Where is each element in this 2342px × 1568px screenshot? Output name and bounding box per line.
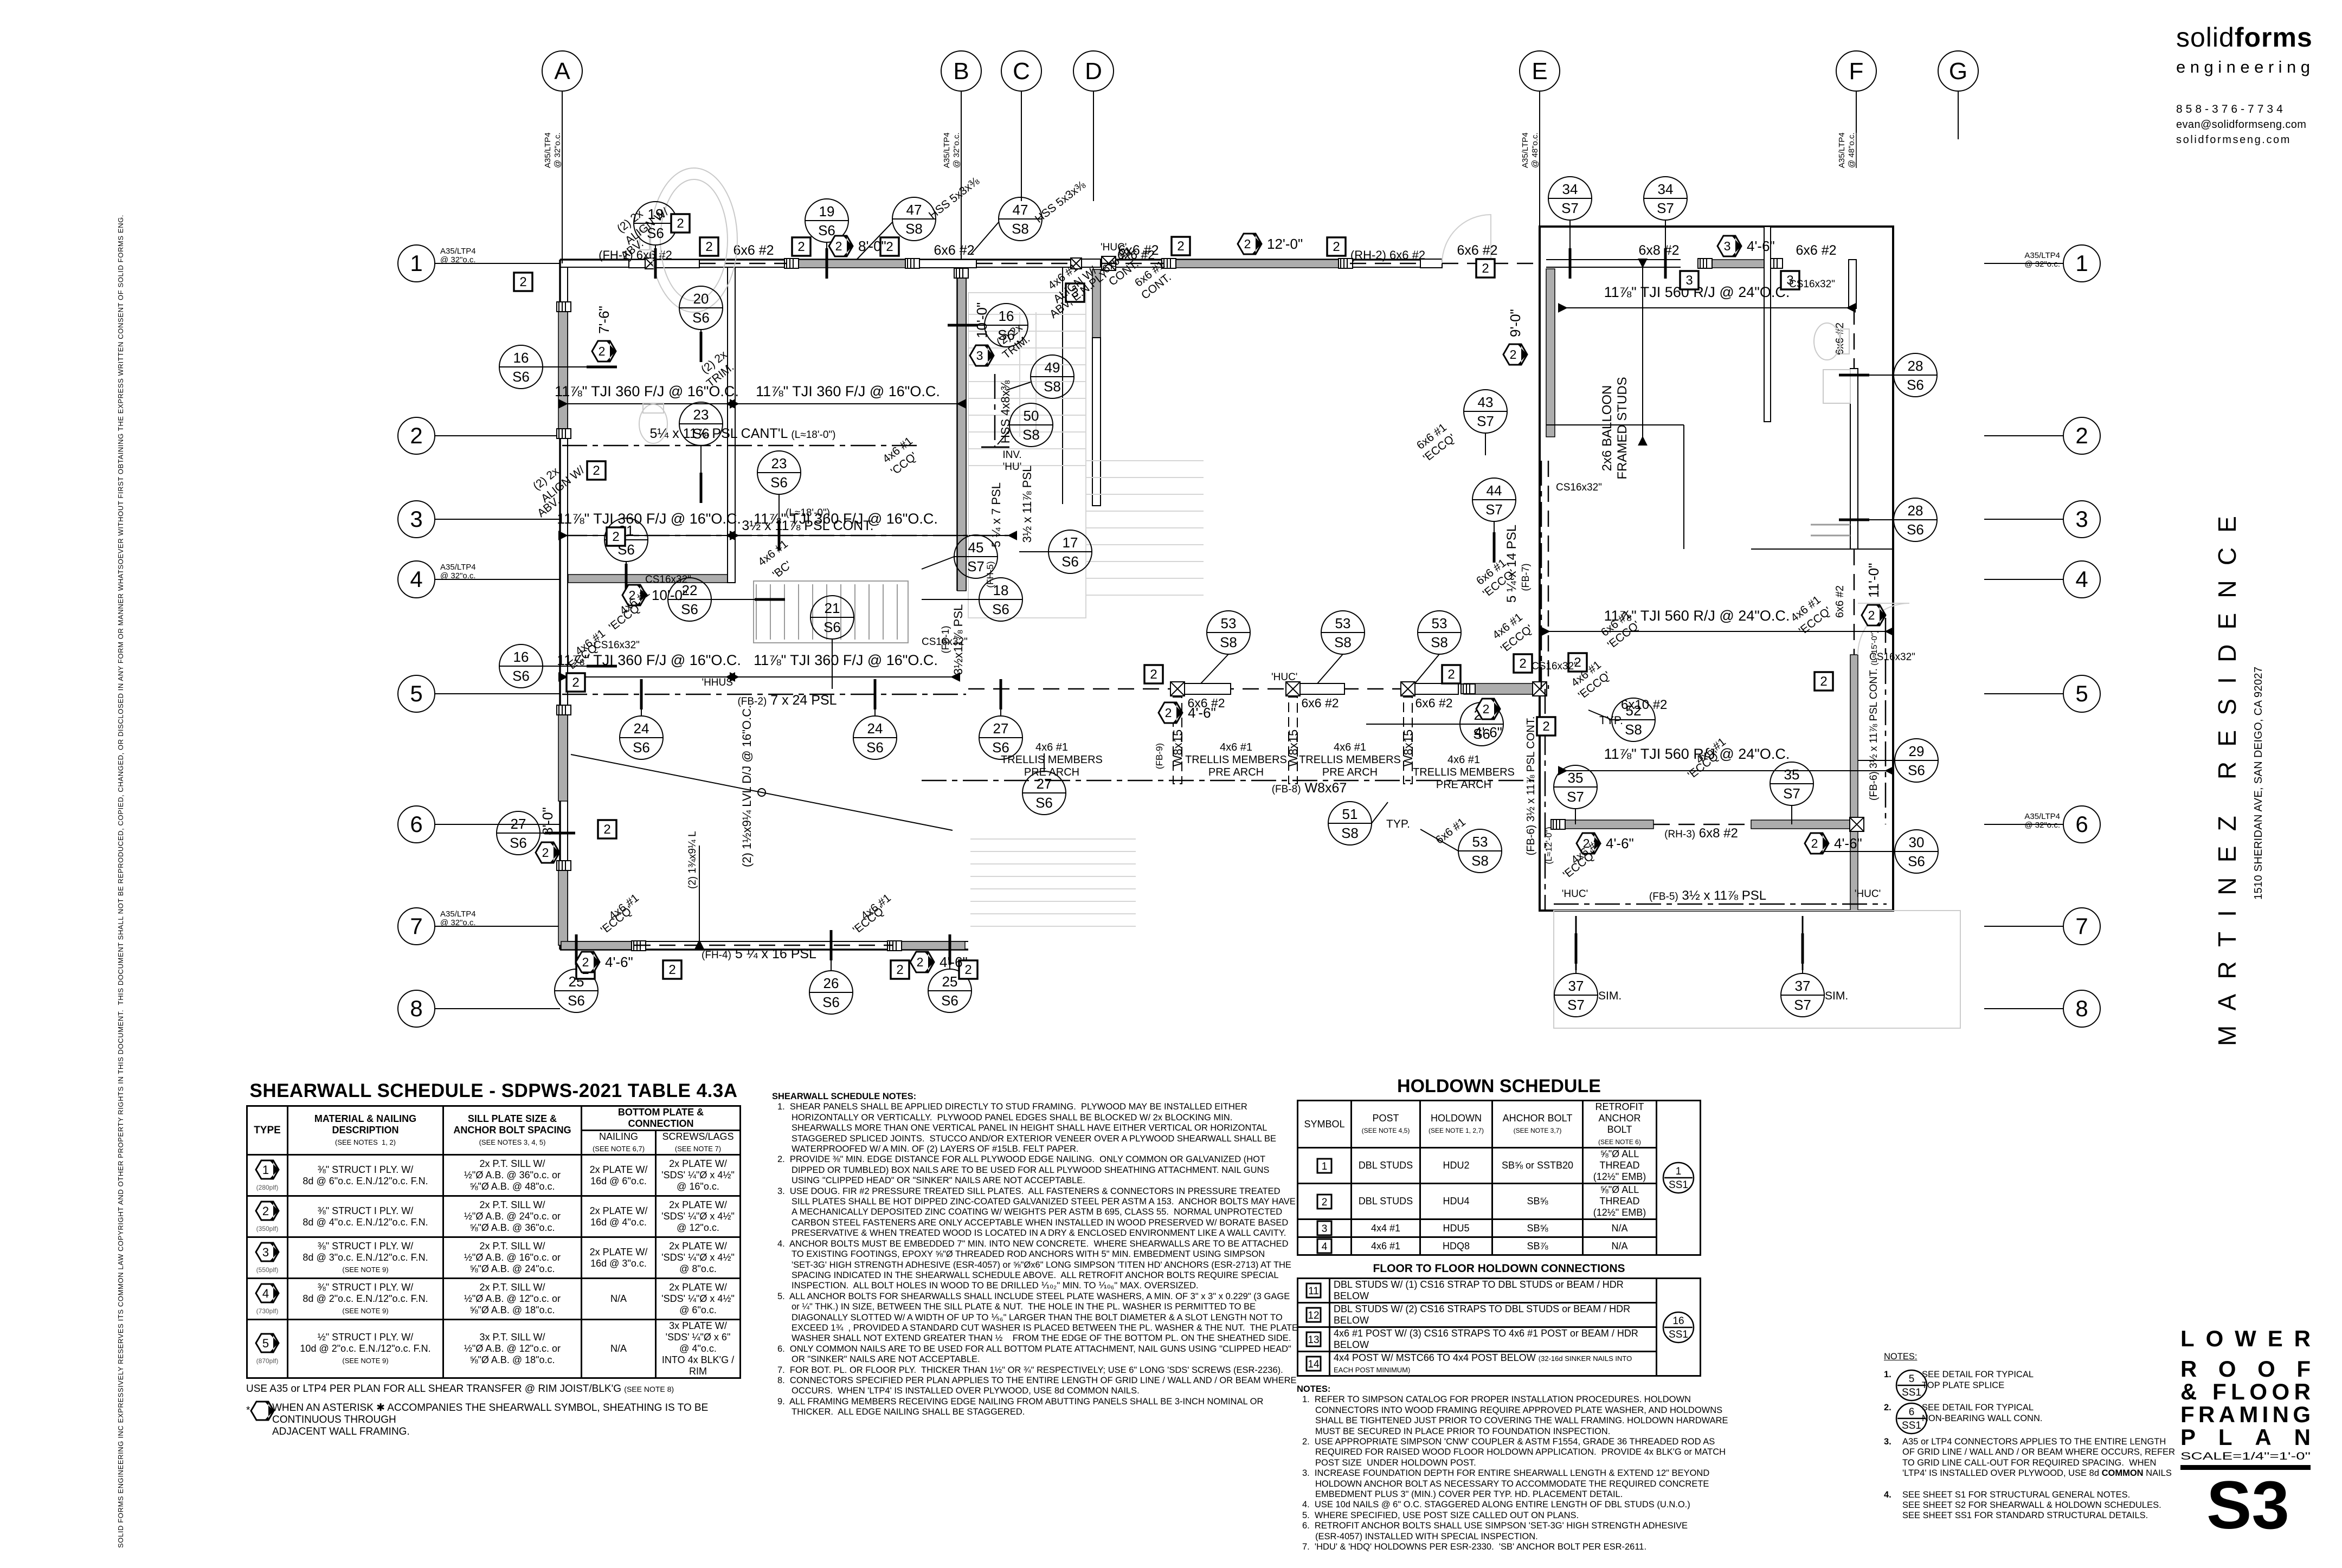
svg-text:6x6 #2: 6x6 #2 <box>1834 585 1846 618</box>
svg-text:S6: S6 <box>692 425 710 442</box>
svg-text:53: 53 <box>1335 615 1351 631</box>
svg-text:27: 27 <box>993 720 1009 737</box>
sheet title bottom right <box>2179 1327 2312 1568</box>
svg-text:SS1: SS1 <box>1902 1387 1921 1398</box>
svg-text:19: 19 <box>819 203 835 220</box>
svg-text:8: 8 <box>2075 996 2088 1021</box>
svg-text:16: 16 <box>513 649 529 665</box>
svg-text:2: 2 <box>917 955 924 969</box>
svg-text:12: 12 <box>1308 1310 1319 1321</box>
svg-text:B: B <box>953 58 969 85</box>
svg-text:(2) 1½x9¼ LVL D/J @ 16"O.C.: (2) 1½x9¼ LVL D/J @ 16"O.C. <box>740 705 754 867</box>
svg-text:2: 2 <box>1483 702 1490 716</box>
svg-text:S6: S6 <box>1907 521 1924 538</box>
svg-text:25: 25 <box>942 973 958 990</box>
svg-text:ROOF: ROOF <box>2180 1356 2311 1382</box>
svg-text:14: 14 <box>1308 1359 1320 1370</box>
svg-text:11⅞" TJI 360 F/J @ 16"O.C.: 11⅞" TJI 360 F/J @ 16"O.C. <box>754 511 938 527</box>
svg-text:C: C <box>1013 58 1030 85</box>
svg-text:6x10 #2: 6x10 #2 <box>1621 698 1667 712</box>
svg-text:5: 5 <box>2075 681 2088 706</box>
svg-text:2: 2 <box>677 216 684 231</box>
svg-text:1: 1 <box>1676 1166 1682 1177</box>
svg-text:4'-6": 4'-6" <box>1606 835 1634 851</box>
svg-text:50: 50 <box>1024 408 1039 424</box>
svg-text:37: 37 <box>1795 978 1811 994</box>
svg-text:53: 53 <box>1432 615 1447 631</box>
svg-text:@ 32"o.c.: @ 32"o.c. <box>2024 260 2060 269</box>
svg-text:44: 44 <box>1487 482 1502 499</box>
svg-text:S7: S7 <box>1567 997 1585 1013</box>
svg-text:SCALE=1/4"=1'-0": SCALE=1/4"=1'-0" <box>2180 1451 2311 1462</box>
svg-text:4: 4 <box>1322 1241 1328 1253</box>
svg-text:6x6 #1: 6x6 #1 <box>1433 816 1468 847</box>
svg-text:1: 1 <box>1322 1161 1328 1172</box>
svg-text:'HUC': 'HUC' <box>1562 888 1588 900</box>
svg-text:4'-6": 4'-6" <box>1188 705 1216 721</box>
svg-text:5: 5 <box>410 681 422 706</box>
svg-text:PRE ARCH: PRE ARCH <box>1208 766 1264 778</box>
svg-text:2: 2 <box>1177 239 1184 254</box>
svg-text:43: 43 <box>1478 394 1494 410</box>
svg-text:2: 2 <box>599 344 606 358</box>
svg-text:LOWER: LOWER <box>2180 1327 2311 1351</box>
svg-text:S3: S3 <box>2206 1468 2289 1543</box>
svg-text:S8: S8 <box>1022 427 1040 443</box>
svg-text:(FB-5) 3½ x 11⅞ PSL: (FB-5) 3½ x 11⅞ PSL <box>1649 888 1766 903</box>
svg-text:2: 2 <box>1510 347 1517 362</box>
FB-6 vertical beams <box>1545 689 1546 911</box>
svg-text:S6: S6 <box>1908 762 1925 778</box>
grid bubbles right 1-8 <box>1984 245 2100 282</box>
svg-text:(2) 1¾x9¼ L: (2) 1¾x9¼ L <box>687 831 698 889</box>
svg-text:HSS 5x3x⅜: HSS 5x3x⅜ <box>1033 178 1088 225</box>
callout circles <box>634 202 677 245</box>
svg-text:4x6 #1: 4x6 #1 <box>1447 754 1480 766</box>
svg-text:6x6 #2: 6x6 #2 <box>934 243 974 258</box>
svg-text:17: 17 <box>1063 534 1078 551</box>
svg-text:'HUC': 'HUC' <box>1855 888 1881 900</box>
svg-text:TRELLIS MEMBERS: TRELLIS MEMBERS <box>1001 754 1103 766</box>
title block right <box>2176 22 2317 146</box>
svg-text:5 ¼ x 7 PSL: 5 ¼ x 7 PSL <box>989 482 1003 547</box>
stairs upper run light <box>968 293 1086 618</box>
svg-text:8: 8 <box>410 996 422 1021</box>
svg-text:11⅞" TJI 360 F/J @ 16"O.C.: 11⅞" TJI 360 F/J @ 16"O.C. <box>754 652 938 668</box>
svg-text:MARTINEZ RESIDENCE: MARTINEZ RESIDENCE <box>2213 509 2241 1046</box>
svg-text:SS1: SS1 <box>1902 1420 1921 1431</box>
svg-text:3: 3 <box>410 506 422 532</box>
svg-text:S6: S6 <box>992 601 1009 617</box>
svg-text:S8: S8 <box>1012 221 1029 237</box>
svg-text:27: 27 <box>511 816 526 832</box>
svg-text:2x6 BALLOON: 2x6 BALLOON <box>1600 385 1614 472</box>
vertical project name <box>2212 488 2282 1084</box>
svg-text:'HU': 'HU' <box>1003 461 1022 473</box>
svg-text:S6: S6 <box>992 739 1009 756</box>
svg-text:CS16x32": CS16x32" <box>922 636 968 648</box>
svg-text:S6: S6 <box>823 619 841 635</box>
svg-text:34: 34 <box>1658 181 1674 197</box>
svg-text:2: 2 <box>896 963 903 977</box>
door arc right bldg east <box>1858 603 1909 655</box>
svg-text:4'-6": 4'-6" <box>1834 835 1862 851</box>
FB-7 vertical beam <box>1541 461 1542 689</box>
right bldg interior walls <box>1849 260 1856 308</box>
svg-text:2: 2 <box>1542 719 1549 734</box>
patio below right bldg <box>1554 911 1960 1028</box>
svg-text:6x8 #2: 6x8 #2 <box>1638 243 1679 258</box>
svg-text:S6: S6 <box>1908 853 1925 869</box>
svg-text:D: D <box>1085 58 1102 85</box>
svg-text:2: 2 <box>1447 667 1455 682</box>
svg-text:HSS 5x3x⅜: HSS 5x3x⅜ <box>926 175 982 222</box>
header beams top wall <box>629 260 699 268</box>
svg-text:(FB-6) 3½ x 11⅞ PSL CONT.: (FB-6) 3½ x 11⅞ PSL CONT. <box>1525 717 1537 856</box>
svg-text:3: 3 <box>1685 273 1693 288</box>
svg-text:5: 5 <box>1909 1373 1915 1385</box>
svg-text:S6: S6 <box>818 222 835 238</box>
svg-text:S8: S8 <box>1431 634 1448 650</box>
svg-text:S6: S6 <box>1061 553 1079 570</box>
svg-text:W8x15: W8x15 <box>1171 730 1185 766</box>
svg-text:INV.: INV. <box>1002 449 1021 461</box>
TJI 560 right bldg <box>1567 284 1847 308</box>
svg-text:W8x15: W8x15 <box>1286 730 1300 766</box>
svg-text:@ 32"o.c.: @ 32"o.c. <box>952 132 961 168</box>
svg-text:TRELLIS MEMBERS: TRELLIS MEMBERS <box>1299 754 1401 766</box>
svg-text:6: 6 <box>410 811 422 837</box>
svg-text:2: 2 <box>603 822 610 837</box>
svg-text:2: 2 <box>1165 706 1172 720</box>
svg-text:23: 23 <box>771 455 787 472</box>
RH-3 row <box>1554 820 1653 829</box>
svg-text:S7: S7 <box>1567 789 1584 805</box>
svg-text:S8: S8 <box>905 221 923 237</box>
HOLDOWN SCHEDULE <box>1297 1076 1701 1553</box>
svg-text:S8: S8 <box>1471 853 1489 869</box>
svg-text:4x6 #1: 4x6 #1 <box>1220 741 1252 753</box>
svg-text:28: 28 <box>1908 358 1923 374</box>
svg-text:6x6 #2: 6x6 #2 <box>1301 696 1339 710</box>
toilet right bldg <box>1814 323 1849 360</box>
svg-text:2: 2 <box>410 423 422 448</box>
svg-text:S7: S7 <box>1561 200 1579 216</box>
svg-text:4'-6": 4'-6" <box>1474 724 1502 740</box>
svg-text:47: 47 <box>1013 202 1028 218</box>
svg-text:S7: S7 <box>967 558 985 575</box>
svg-text:2: 2 <box>1333 240 1340 254</box>
svg-text:51: 51 <box>1342 806 1358 822</box>
svg-text:10'-0": 10'-0" <box>652 587 687 603</box>
svg-text:@ 32"o.c.: @ 32"o.c. <box>2024 821 2060 830</box>
trellis member labels <box>1185 741 1287 778</box>
svg-text:(RH-2) 6x6 #2: (RH-2) 6x6 #2 <box>1350 248 1425 262</box>
svg-text:12'-0": 12'-0" <box>1267 236 1303 252</box>
svg-text:11'-0": 11'-0" <box>1865 563 1882 598</box>
svg-text:@ 48"o.c.: @ 48"o.c. <box>1847 132 1856 168</box>
deck joists between buildings <box>970 839 1136 926</box>
trellis row beams <box>968 688 1540 690</box>
svg-text:27: 27 <box>1037 776 1052 792</box>
TJI span dimensions left bldg <box>555 383 739 404</box>
svg-text:S8: S8 <box>1625 721 1642 738</box>
svg-text:3: 3 <box>1322 1223 1328 1235</box>
svg-text:S7: S7 <box>1485 501 1503 518</box>
svg-text:@ 48"o.c.: @ 48"o.c. <box>1530 132 1540 168</box>
svg-text:SIM.: SIM. <box>1825 990 1848 1002</box>
svg-text:FRAMED STUDS: FRAMED STUDS <box>1615 377 1630 479</box>
svg-text:S6: S6 <box>681 601 698 617</box>
svg-text:S6: S6 <box>1907 377 1924 393</box>
door arc top wall <box>1442 215 1491 263</box>
svg-text:7: 7 <box>410 913 422 939</box>
svg-text:PRE ARCH: PRE ARCH <box>1322 766 1378 778</box>
stairs main run <box>756 584 897 640</box>
svg-text:4: 4 <box>410 566 422 592</box>
svg-text:1: 1 <box>2075 250 2088 276</box>
svg-text:S8: S8 <box>1334 634 1352 650</box>
svg-text:1510 SHERIDAN AVE, SAN DEIGO,: 1510 SHERIDAN AVE, SAN DEIGO, CA 92027 <box>2253 667 2264 900</box>
svg-text:S7: S7 <box>1794 997 1811 1013</box>
svg-text:5: 5 <box>262 1337 269 1350</box>
svg-text:35: 35 <box>1784 766 1800 783</box>
stair enclosure walls <box>1092 338 1101 506</box>
svg-text:3: 3 <box>262 1246 269 1259</box>
svg-text:TRELLIS MEMBERS: TRELLIS MEMBERS <box>1185 754 1287 766</box>
svg-text:S6: S6 <box>1035 795 1053 811</box>
left building outline walls <box>560 259 1420 261</box>
svg-text:A35/LTP4: A35/LTP4 <box>440 247 476 256</box>
svg-text:2: 2 <box>582 955 589 969</box>
svg-text:30: 30 <box>1909 834 1925 850</box>
svg-text:A35/LTP4: A35/LTP4 <box>1837 132 1846 168</box>
svg-text:24: 24 <box>867 720 883 737</box>
svg-text:A35/LTP4: A35/LTP4 <box>440 563 476 572</box>
svg-text:G: G <box>1949 58 1967 85</box>
svg-text:CS16x32": CS16x32" <box>1556 482 1602 493</box>
svg-text:6x6 #2: 6x6 #2 <box>1415 696 1452 710</box>
grid bubbles left 1-8 <box>398 245 560 282</box>
svg-text:2: 2 <box>1811 836 1818 850</box>
svg-text:13: 13 <box>1308 1334 1319 1346</box>
svg-text:S6: S6 <box>770 474 788 491</box>
svg-text:4: 4 <box>2075 566 2088 592</box>
HSS 4x8 column line <box>994 374 996 447</box>
svg-text:2: 2 <box>668 963 675 977</box>
svg-text:4'-6": 4'-6" <box>940 954 968 970</box>
svg-text:(FB-7): (FB-7) <box>1520 564 1531 591</box>
svg-text:8'-0": 8'-0" <box>539 807 556 835</box>
svg-text:@ 32"o.c.: @ 32"o.c. <box>440 918 476 927</box>
right bldg grid1 wall row <box>1546 259 1681 260</box>
svg-text:A: A <box>554 58 570 85</box>
svg-text:SIM.: SIM. <box>1598 990 1622 1002</box>
svg-text:2: 2 <box>1868 608 1875 622</box>
CANT beam dash-dot <box>562 445 922 447</box>
svg-text:4'-6": 4'-6" <box>605 954 633 970</box>
interior wall mid vertical <box>728 267 735 583</box>
svg-text:6: 6 <box>1909 1406 1915 1418</box>
svg-text:1: 1 <box>410 250 422 276</box>
svg-text:S8: S8 <box>1044 378 1061 395</box>
svg-text:A35/LTP4: A35/LTP4 <box>942 132 951 168</box>
svg-text:SS1: SS1 <box>1669 1329 1688 1340</box>
svg-text:3½ x 11⅞ PSL: 3½ x 11⅞ PSL <box>1020 466 1034 543</box>
svg-text:3: 3 <box>976 349 983 363</box>
svg-text:3: 3 <box>2075 506 2088 532</box>
svg-text:18: 18 <box>993 582 1009 598</box>
shearwall hexagons with dims <box>829 236 853 256</box>
svg-text:4x6 #1: 4x6 #1 <box>1334 741 1366 753</box>
svg-text:4x6 #1: 4x6 #1 <box>1035 741 1068 753</box>
svg-text:(FH-4) 5 ¼ x 16 PSL: (FH-4) 5 ¼ x 16 PSL <box>702 946 816 962</box>
svg-text:11⅞" TJI 360 F/J @ 16"O.C.: 11⅞" TJI 360 F/J @ 16"O.C. <box>756 383 940 399</box>
svg-text:S6: S6 <box>822 994 840 1010</box>
svg-text:F: F <box>1849 58 1864 85</box>
svg-text:10'-0": 10'-0" <box>974 302 990 338</box>
svg-text:28: 28 <box>1908 502 1923 519</box>
LVL D/J diagonal extent <box>571 754 953 830</box>
NOTES right bottom <box>1884 1352 2112 1521</box>
svg-text:7'-6": 7'-6" <box>596 306 612 334</box>
svg-text:FRAMING: FRAMING <box>2180 1402 2311 1427</box>
svg-text:2: 2 <box>2075 423 2088 448</box>
svg-text:CS16x32": CS16x32" <box>1532 661 1578 672</box>
svg-text:CS16x32": CS16x32" <box>1869 651 1915 663</box>
svg-text:1: 1 <box>262 1163 269 1177</box>
INV HU <box>1002 449 1021 473</box>
svg-text:6x6 #2: 6x6 #2 <box>1117 248 1155 262</box>
svg-text:16: 16 <box>1672 1315 1684 1327</box>
leader wall ticks <box>654 248 657 279</box>
svg-text:5¼ x 11⅞ PSL CANT'L (L≈18'-0"): 5¼ x 11⅞ PSL CANT'L (L≈18'-0") <box>650 426 836 441</box>
svg-text:49: 49 <box>1045 359 1060 376</box>
svg-text:(L≈12'-0"): (L≈12'-0") <box>1545 827 1554 864</box>
svg-text:6x6 #2: 6x6 #2 <box>1457 243 1497 258</box>
gray shearwall segments <box>558 302 568 435</box>
svg-text:8'-0": 8'-0" <box>858 238 886 254</box>
vertical dim arrow bottom <box>699 846 700 940</box>
svg-text:47: 47 <box>906 202 922 218</box>
svg-text:2: 2 <box>1820 674 1827 689</box>
svg-text:2: 2 <box>519 275 526 289</box>
svg-text:4'-6": 4'-6" <box>1747 238 1775 254</box>
svg-text:2: 2 <box>612 530 619 544</box>
svg-text:SOLID FORMS ENGINEERING INC EX: SOLID FORMS ENGINEERING INC EXPRESSIVELY… <box>117 215 125 1548</box>
svg-text:(RH-3) 6x8 #2: (RH-3) 6x8 #2 <box>1664 826 1738 841</box>
upper stair second flight light <box>1086 461 1204 595</box>
svg-text:2: 2 <box>1150 667 1157 682</box>
svg-text:6x6 #2: 6x6 #2 <box>1796 243 1836 258</box>
right building outline <box>1540 227 1893 911</box>
svg-text:45: 45 <box>968 539 984 556</box>
svg-text:S6: S6 <box>866 739 884 756</box>
svg-text:CS16x32": CS16x32" <box>594 640 640 651</box>
svg-text:2: 2 <box>593 463 600 478</box>
svg-text:2: 2 <box>262 1204 269 1218</box>
svg-text:21: 21 <box>825 600 840 616</box>
svg-text:SS1: SS1 <box>1669 1179 1688 1191</box>
svg-text:A35/LTP4: A35/LTP4 <box>1521 132 1530 168</box>
svg-text:S7: S7 <box>1783 785 1800 802</box>
svg-text:S6: S6 <box>568 992 585 1009</box>
svg-text:A35/LTP4: A35/LTP4 <box>2024 251 2060 260</box>
svg-text:16: 16 <box>999 308 1014 324</box>
toilet left <box>639 403 667 443</box>
FH-4 bottom beam <box>634 945 893 946</box>
FB-2 7x24 PSL <box>562 694 966 695</box>
svg-text:23: 23 <box>693 406 709 423</box>
svg-text:(FB-9): (FB-9) <box>1154 743 1164 769</box>
svg-text:S6: S6 <box>512 369 530 385</box>
svg-text:@ 32"o.c.: @ 32"o.c. <box>440 571 476 580</box>
shearwall type squares <box>514 273 532 291</box>
svg-text:S7: S7 <box>1477 413 1494 429</box>
svg-text:2: 2 <box>797 240 805 254</box>
svg-text:CS16x32": CS16x32" <box>645 574 691 585</box>
svg-text:S8: S8 <box>1341 825 1359 841</box>
left margin copyright <box>111 0 127 1561</box>
svg-text:S6: S6 <box>512 668 530 684</box>
svg-text:@ 32"o.c.: @ 32"o.c. <box>553 132 562 168</box>
svg-text:3: 3 <box>1724 239 1731 253</box>
svg-text:'HHUS': 'HHUS' <box>702 677 735 688</box>
sink right bldg <box>1823 370 1850 403</box>
svg-text:'BC': 'BC' <box>770 559 794 581</box>
svg-text:TYP.: TYP. <box>1386 818 1410 830</box>
svg-text:2: 2 <box>1519 656 1526 671</box>
svg-text:16: 16 <box>513 350 529 366</box>
svg-text:@ 32"o.c.: @ 32"o.c. <box>440 255 476 264</box>
svg-text:37: 37 <box>1568 978 1584 994</box>
svg-text:S6: S6 <box>941 992 958 1009</box>
PSL CONT beam <box>562 535 1008 537</box>
svg-text:2: 2 <box>572 675 579 690</box>
svg-text:34: 34 <box>1562 181 1578 197</box>
svg-text:20: 20 <box>693 291 709 307</box>
svg-text:11: 11 <box>1308 1286 1319 1297</box>
svg-text:29: 29 <box>1909 743 1925 759</box>
svg-text:HSS 4x8x⅜: HSS 4x8x⅜ <box>999 380 1012 443</box>
svg-text:6: 6 <box>2075 811 2088 837</box>
svg-text:35: 35 <box>1568 770 1584 786</box>
svg-text:A35/LTP4: A35/LTP4 <box>440 909 476 919</box>
FH-1 top wall beam labels, dashed portions <box>699 263 787 264</box>
svg-text:(FB-8) W8x67: (FB-8) W8x67 <box>1272 780 1347 796</box>
svg-text:5 ¼ x 14 PSL: 5 ¼ x 14 PSL <box>1504 525 1519 603</box>
svg-text:S8: S8 <box>1220 634 1237 650</box>
svg-text:W8x15: W8x15 <box>1401 730 1415 766</box>
SHEARWALL SCHEDULE <box>246 1080 741 1438</box>
svg-text:2: 2 <box>1482 261 1489 276</box>
svg-text:PLAN: PLAN <box>2180 1424 2311 1450</box>
svg-text:11⅞" TJI 360 F/J @ 16"O.C.: 11⅞" TJI 360 F/J @ 16"O.C. <box>557 511 741 527</box>
svg-text:E: E <box>1532 58 1547 85</box>
svg-text:24: 24 <box>634 720 649 737</box>
svg-text:2: 2 <box>705 240 712 254</box>
svg-text:2: 2 <box>886 240 893 254</box>
svg-text:A35/LTP4: A35/LTP4 <box>543 132 552 168</box>
svg-text:2: 2 <box>542 846 549 860</box>
svg-text:S7: S7 <box>1657 200 1674 216</box>
svg-text:S6: S6 <box>510 835 527 851</box>
svg-text:'HUC': 'HUC' <box>1271 672 1297 683</box>
callout leaders <box>655 245 656 263</box>
svg-text:S6: S6 <box>692 309 710 326</box>
svg-text:CS16x32": CS16x32" <box>1789 279 1835 290</box>
svg-text:S6: S6 <box>633 739 650 756</box>
